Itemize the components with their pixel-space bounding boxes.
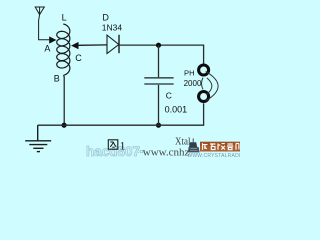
svg-text:PH: PH	[184, 69, 195, 78]
svg-text:hacd807: hacd807	[86, 144, 140, 159]
svg-text:D: D	[102, 13, 109, 23]
svg-text:www.cnhz: www.cnhz	[143, 147, 190, 159]
svg-text:0.001: 0.001	[165, 105, 188, 115]
svg-text:1N34: 1N34	[102, 22, 123, 32]
svg-text:C: C	[166, 91, 172, 101]
svg-text:L: L	[62, 12, 67, 22]
svg-text:WWW.CRYSTALRADIO.NET: WWW.CRYSTALRADIO.NET	[187, 153, 240, 159]
svg-text:1: 1	[120, 141, 126, 153]
svg-text:A: A	[44, 44, 50, 54]
svg-text:Xtal: Xtal	[175, 135, 191, 147]
svg-text:B: B	[54, 74, 60, 84]
svg-text:C: C	[75, 53, 82, 63]
svg-text:2000: 2000	[184, 79, 202, 88]
